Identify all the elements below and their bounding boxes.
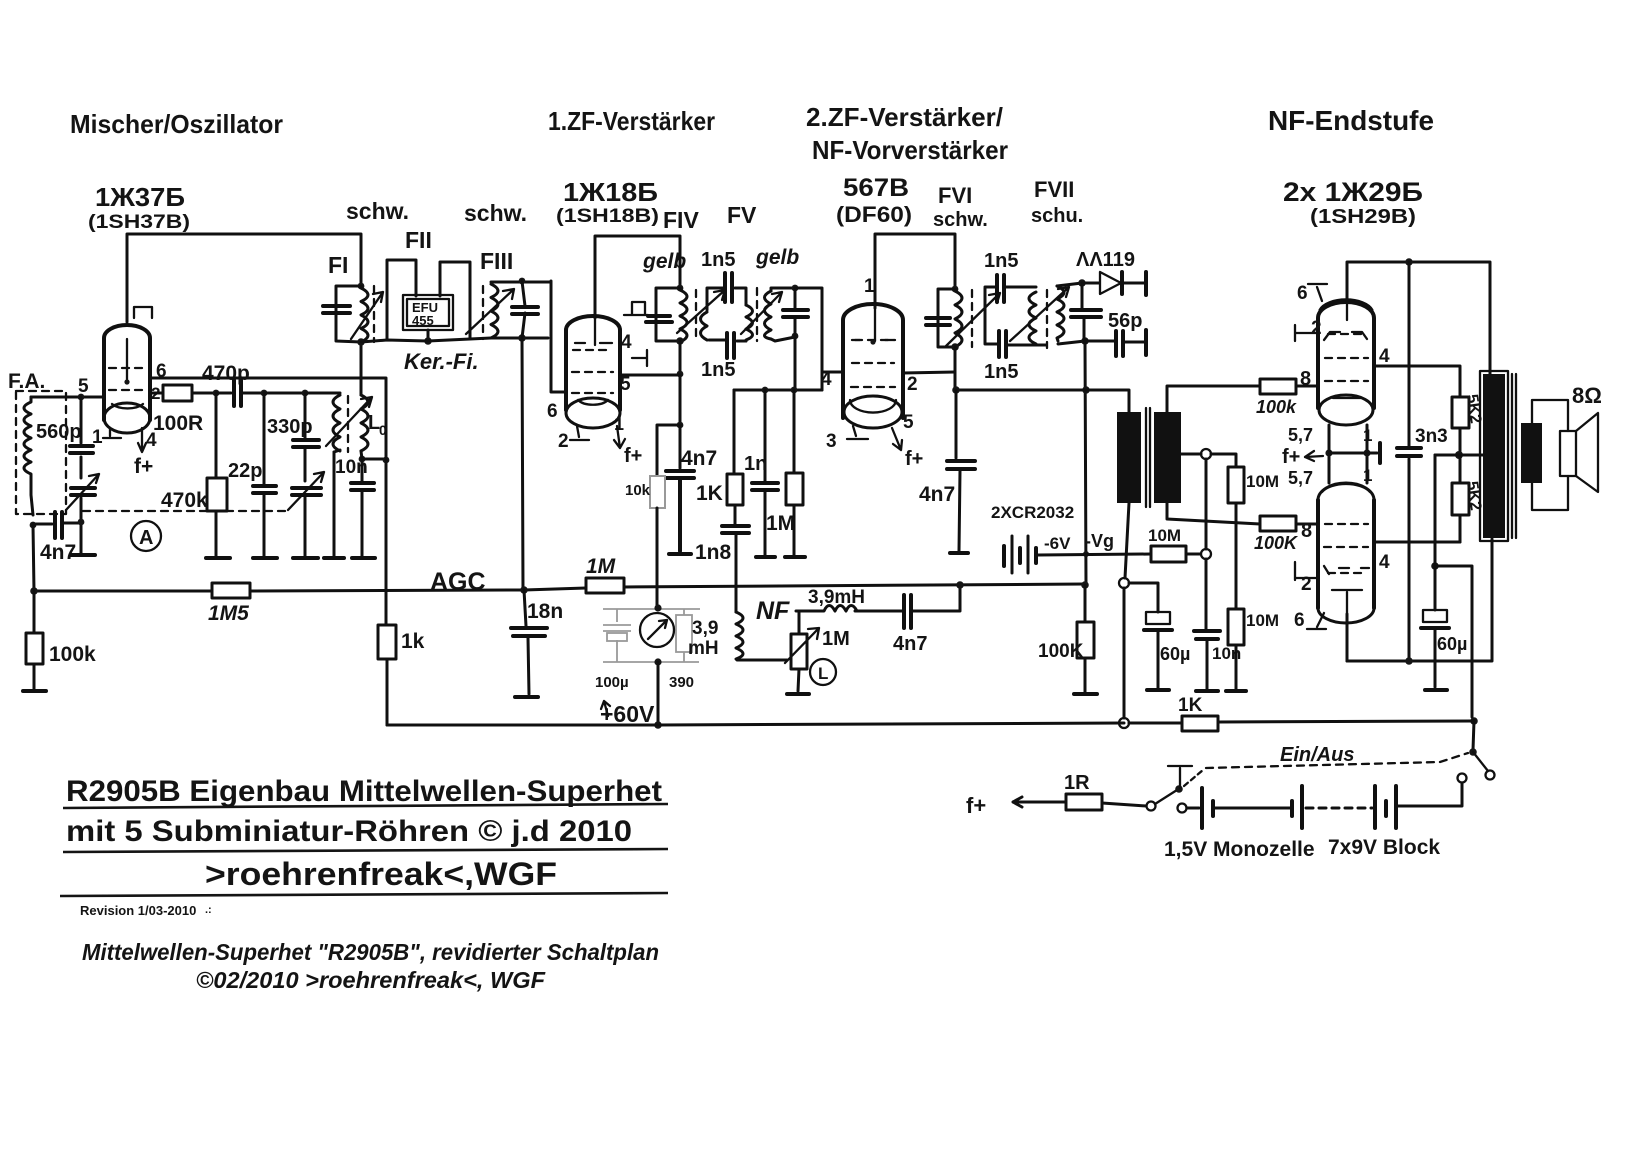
- svg-text:FVII: FVII: [1034, 177, 1074, 202]
- svg-text:1M: 1M: [822, 628, 850, 650]
- top-cap grid symbol V1: [134, 307, 152, 318]
- svg-text:schw.: schw.: [464, 200, 527, 226]
- svg-text:22p: 22p: [228, 460, 262, 482]
- wire centre tap to transformer: [1480, 454, 1483, 457]
- wire V1 pin5 to antenna circuit: [31, 396, 103, 399]
- IF transformer FI tank: [358, 283, 365, 290]
- svg-text:Mischer/Oszillator: Mischer/Oszillator: [70, 109, 283, 139]
- meter circle: [640, 613, 674, 647]
- svg-text:4n7: 4n7: [40, 541, 76, 564]
- svg-text:1n5: 1n5: [701, 249, 735, 271]
- IF transformer FIII tank: [482, 286, 484, 339]
- svg-text:f+: f+: [905, 448, 923, 470]
- capacitor 60u (right): [1431, 562, 1439, 570]
- svg-text:6: 6: [547, 401, 558, 422]
- node 4n7/10k: [677, 422, 684, 429]
- ceramic filter EFU455 box: [403, 295, 453, 330]
- svg-text:3: 3: [826, 431, 837, 452]
- wire FV bottom to grid-return bus: [794, 336, 797, 390]
- svg-text:4n7: 4n7: [893, 633, 927, 655]
- svg-text:1Ж37Б: 1Ж37Б: [95, 182, 185, 212]
- IF transformer FVI primary tank: [952, 286, 959, 293]
- svg-text:5,7: 5,7: [1288, 468, 1313, 488]
- resistor 1M5: [212, 583, 250, 598]
- driver transformer secondary core (black): [1154, 412, 1181, 503]
- pin 4 stub V2: [632, 350, 647, 366]
- battery 7x9V Block: [1290, 801, 1294, 816]
- wire V2 pin5: [620, 374, 680, 377]
- capacitor 4n7 (detector bypass): [955, 390, 958, 458]
- svg-text:2x 1Ж29Б: 2x 1Ж29Б: [1283, 177, 1423, 207]
- resistor 100K (AGC load): [1084, 585, 1087, 692]
- svg-text:2: 2: [558, 431, 569, 452]
- potentiometer 1M volume: [791, 634, 807, 669]
- top-cap grid symbol V2: [632, 302, 645, 314]
- meter symbol A circle: [131, 521, 161, 551]
- oscillator coil feedback winding: [333, 395, 340, 452]
- wire -Vg to transformer centre tap: [1205, 459, 1208, 549]
- resistor 5K2 upper: [1452, 397, 1469, 428]
- svg-text:1.ZF-Verstärker: 1.ZF-Verstärker: [548, 106, 715, 136]
- svg-text:schw.: schw.: [933, 209, 988, 231]
- svg-text:Revision 1/03-2010: Revision 1/03-2010: [80, 903, 196, 918]
- svg-text:60µ: 60µ: [1437, 634, 1467, 654]
- grid return bus y390: [734, 389, 822, 392]
- driver transformer secondary bottom to 100K V5 grid: [1167, 503, 1260, 524]
- svg-text:2XCR2032: 2XCR2032: [991, 503, 1074, 522]
- svg-text:(1SH18B): (1SH18B): [556, 206, 659, 227]
- pin 3 stub V3: [847, 426, 868, 439]
- switch (battery side): [1147, 802, 1156, 811]
- IF transformer FVI secondary tank: [985, 287, 1046, 345]
- svg-text:8Ω: 8Ω: [1572, 383, 1602, 408]
- svg-text:7x9V Block: 7x9V Block: [1328, 836, 1440, 859]
- svg-text:1n5: 1n5: [984, 250, 1018, 272]
- svg-text:10M: 10M: [1246, 472, 1279, 491]
- oscillator coil core dashed: [347, 396, 349, 452]
- resistor 1R: [1030, 801, 1066, 804]
- resistor 100k (AGC to ground): [33, 591, 36, 689]
- capacitor 4n7 (antenna): [33, 523, 81, 524]
- svg-text:560p: 560p: [36, 421, 82, 443]
- svg-text:1K: 1K: [1178, 695, 1203, 716]
- svg-text:(1SH29B): (1SH29B): [1310, 206, 1416, 228]
- svg-text:f+: f+: [134, 455, 153, 478]
- svg-text:6: 6: [1297, 283, 1308, 304]
- svg-text:2: 2: [1311, 318, 1322, 339]
- svg-text:330p: 330p: [267, 416, 313, 438]
- svg-text:FVI: FVI: [938, 183, 972, 208]
- svg-text:18n: 18n: [527, 600, 563, 623]
- ceramic filter FII left loop: [387, 260, 416, 339]
- svg-text:100R: 100R: [153, 412, 203, 435]
- trimmer capacitor (osc tuning): [292, 488, 321, 495]
- svg-text:1,5V Monozelle: 1,5V Monozelle: [1164, 838, 1315, 861]
- wire FIII bottom to AGC: [522, 338, 523, 590]
- svg-text:schu.: schu.: [1031, 205, 1083, 227]
- speaker matching coil (black): [1521, 423, 1542, 483]
- tube V4 1Zh29B envelope: [1318, 300, 1374, 425]
- svg-text:mH: mH: [688, 638, 719, 659]
- svg-text:390: 390: [669, 674, 694, 691]
- node AGC left: [30, 587, 38, 595]
- svg-text:NF-Vorverstärker: NF-Vorverstärker: [812, 135, 1008, 165]
- svg-text:FI: FI: [328, 252, 348, 278]
- pin 2 stub V2: [570, 426, 589, 440]
- svg-text:-6V: -6V: [1044, 534, 1071, 553]
- loudspeaker: [1560, 431, 1576, 476]
- wire V3 pin4 grid: [822, 371, 843, 374]
- svg-text:©02/2010 >roehrenfreak<, WGF: ©02/2010 >roehrenfreak<, WGF: [196, 967, 546, 993]
- capacitor 1n: [764, 390, 767, 555]
- svg-text:FII: FII: [405, 227, 432, 253]
- svg-text:10M: 10M: [1148, 526, 1181, 545]
- anode bus to driver transformer: [954, 390, 1129, 412]
- FV tank cap: [771, 288, 795, 341]
- svg-text:1M: 1M: [586, 555, 616, 578]
- svg-text:10n: 10n: [1212, 644, 1241, 663]
- resistor 10M (bias feed): [1151, 546, 1186, 562]
- svg-text:4n7: 4n7: [919, 483, 955, 506]
- tube V2 1Zh18B envelope: [566, 316, 620, 428]
- svg-text:3,9mH: 3,9mH: [808, 587, 865, 608]
- battery 1,5V Monozelle: [1187, 807, 1199, 810]
- junction circle -Vg: [1201, 549, 1211, 559]
- svg-text:FIII: FIII: [480, 248, 513, 274]
- svg-text:470p: 470p: [202, 362, 250, 385]
- resistor 5K2 lower: [1459, 455, 1462, 483]
- svg-text:1n: 1n: [744, 453, 767, 475]
- svg-text:567B: 567B: [843, 174, 909, 202]
- svg-text:2.ZF-Verstärker/: 2.ZF-Verstärker/: [806, 102, 1003, 132]
- svg-text:FV: FV: [727, 202, 757, 228]
- svg-text:8: 8: [1301, 520, 1312, 542]
- dashed tuning gang link: [83, 510, 289, 512]
- svg-text:R2905B Eigenbau Mittelwellen-S: R2905B Eigenbau Mittelwellen-Superhet: [66, 775, 662, 808]
- svg-text:NF: NF: [756, 597, 790, 625]
- svg-text:100K: 100K: [1254, 533, 1299, 553]
- wire V1 pin6 line to x386 rail: [150, 378, 386, 625]
- antenna coil: [24, 397, 33, 515]
- svg-text:Ker.-Fi.: Ker.-Fi.: [404, 349, 479, 374]
- wire to 10k meter chain: [657, 425, 680, 476]
- wire 60u node to on/off switch: [1435, 566, 1472, 717]
- svg-text:gelb: gelb: [755, 246, 799, 269]
- svg-text:100k: 100k: [49, 643, 96, 666]
- IF transformer FIV secondary / FV link circuit: [707, 288, 746, 310]
- oscillator coil L0: [361, 395, 368, 451]
- resistor 100k (V4 grid): [1260, 379, 1296, 394]
- svg-text:4: 4: [821, 369, 832, 390]
- svg-text:4: 4: [1379, 552, 1390, 573]
- svg-text:60µ: 60µ: [1160, 644, 1190, 664]
- node antenna bottom: [30, 522, 37, 529]
- capacitor 22p: [263, 393, 266, 556]
- wire FIII top to V2 grid pin6: [551, 281, 566, 392]
- resistor 1M (grid leak): [793, 390, 796, 555]
- wire FV top to V3 grid: [795, 288, 822, 390]
- ground bar antenna chain: [71, 553, 95, 557]
- resistor 10M upper: [1228, 467, 1244, 503]
- wire FVII down to AGC end: [1085, 341, 1086, 585]
- svg-text:3n3: 3n3: [1415, 426, 1448, 447]
- wire V1 anode to FI top: [127, 234, 361, 322]
- capacitor 60u (left): [1146, 612, 1170, 624]
- svg-text:4n7: 4n7: [681, 447, 717, 470]
- wire V2 anode to FIV: [595, 236, 680, 318]
- svg-text:6: 6: [1294, 610, 1305, 631]
- tube V1 1Zh37B envelope: [104, 325, 150, 433]
- svg-text:455: 455: [412, 313, 434, 328]
- wire node to AGC: [33, 525, 34, 591]
- svg-text:5: 5: [78, 376, 89, 397]
- svg-text:4: 4: [1379, 346, 1390, 367]
- FII centre tap: [427, 330, 430, 341]
- resistor 1K chain with 1n8: [733, 390, 736, 474]
- tube V3 567B envelope: [843, 304, 903, 428]
- bus FI-FII-FIII: [361, 338, 491, 342]
- svg-text:100K: 100K: [1038, 641, 1084, 662]
- svg-text:5,7: 5,7: [1288, 425, 1313, 445]
- svg-text:1: 1: [614, 414, 624, 434]
- resistor 100R: [150, 392, 216, 395]
- svg-text:1n5: 1n5: [984, 361, 1018, 383]
- svg-text:10n: 10n: [335, 457, 368, 478]
- wire FIV bottom to V2 pin5 node: [679, 341, 682, 425]
- node L0 bottom: [359, 456, 366, 463]
- svg-text:mit 5 Subminiatur-Röhren © j.d: mit 5 Subminiatur-Röhren © j.d 2010: [66, 815, 632, 848]
- wire FI bottom to pin6 line to L0 top: [360, 342, 363, 395]
- detector transformer FVII primary: [1057, 286, 1064, 341]
- resistor 10k (grey): [650, 476, 665, 508]
- svg-text:F.A.: F.A.: [8, 370, 45, 393]
- ceramic filter FII right loop: [440, 262, 470, 338]
- svg-text:10k: 10k: [625, 482, 651, 499]
- transformer FV primary coil: [746, 305, 753, 341]
- svg-text:>roehrenfreak<,WGF: >roehrenfreak<,WGF: [205, 856, 557, 892]
- svg-text:1R: 1R: [1064, 772, 1090, 794]
- svg-text:Mittelwellen-Superhet "R2905B": Mittelwellen-Superhet "R2905B", revidier…: [82, 939, 659, 965]
- speaker wire loop: [1532, 400, 1568, 510]
- svg-text:1: 1: [864, 276, 875, 297]
- capacitor 10n (bias filter): [1206, 559, 1207, 689]
- svg-text:Ein/Aus: Ein/Aus: [1280, 744, 1354, 766]
- IF transformer FIV primary tank: [677, 285, 684, 292]
- tube V5 1Zh29B envelope: [1318, 483, 1374, 623]
- svg-text:1n5: 1n5: [701, 359, 735, 381]
- capacitor 10n (osc): [361, 459, 364, 556]
- svg-text:1k: 1k: [401, 630, 425, 653]
- svg-text:470k: 470k: [161, 489, 208, 512]
- svg-text:.:: .:: [205, 904, 212, 916]
- svg-text:1M: 1M: [766, 512, 795, 535]
- svg-text:3,9: 3,9: [692, 618, 718, 639]
- wire V5 bottom to cathode rail: [1346, 614, 1349, 661]
- svg-text:(DF60): (DF60): [836, 202, 912, 227]
- dashed switch link: [1206, 753, 1468, 768]
- capacitor 330p: [304, 393, 307, 556]
- svg-text:L: L: [818, 664, 828, 683]
- resistor 1K (rail): [1182, 716, 1218, 731]
- driver transformer primary core (black): [1117, 412, 1141, 503]
- svg-text:-Vg: -Vg: [1085, 531, 1114, 551]
- wire 60u node down to +60V rail: [1123, 588, 1126, 718]
- svg-text:10M: 10M: [1246, 611, 1279, 630]
- capacitor 4n7 (V2 anode decoupling): [679, 425, 682, 468]
- svg-text:8: 8: [1300, 368, 1311, 390]
- L circle label: [810, 659, 836, 685]
- capacitor 3n3: [1408, 262, 1411, 661]
- transformer FV secondary coil: [765, 291, 772, 339]
- centre tap node: [1455, 451, 1463, 459]
- svg-text:FIV: FIV: [663, 207, 699, 233]
- svg-text:f+: f+: [1282, 446, 1300, 468]
- wire bias line: [1038, 554, 1151, 555]
- trimmer capacitor (antenna tuning): [71, 488, 95, 495]
- svg-text:NF-Endstufe: NF-Endstufe: [1268, 105, 1434, 136]
- capacitor 18n: [524, 590, 529, 694]
- cathode bottom rail: [1347, 539, 1492, 661]
- svg-text:f+: f+: [966, 793, 986, 818]
- antenna coil dashed box: [16, 391, 66, 514]
- pin 1 filament arrow V2: [614, 426, 625, 448]
- driver transformer secondary top to 100k V4 grid: [1167, 386, 1260, 412]
- svg-text:1M5: 1M5: [208, 602, 249, 625]
- resistor 1M (AGC): [586, 578, 624, 593]
- svg-text:ΛΛ119: ΛΛ119: [1076, 249, 1135, 271]
- svg-text:A: A: [139, 527, 153, 549]
- svg-text:1n8: 1n8: [695, 541, 732, 564]
- svg-text:5: 5: [903, 412, 914, 433]
- node AGC / FIII: [520, 586, 528, 594]
- svg-text:1Ж18Б: 1Ж18Б: [563, 177, 658, 207]
- output transformer core (black): [1480, 371, 1508, 541]
- svg-text:schw.: schw.: [346, 198, 409, 224]
- svg-text:5: 5: [620, 374, 631, 395]
- resistor 10M lower: [1228, 609, 1244, 645]
- svg-text:1K: 1K: [696, 482, 723, 505]
- resistor 470k: [215, 393, 218, 556]
- pin 5 filament arrow V3: [892, 428, 902, 450]
- svg-text:56p: 56p: [1108, 310, 1142, 332]
- capacitor 4n7 (NF coupling): [904, 595, 911, 628]
- wire V3 anode to FVI: [875, 234, 955, 308]
- wire V4 anode to top rail: [1347, 262, 1490, 374]
- svg-text:(1SH37B): (1SH37B): [88, 212, 190, 233]
- svg-text:100µ: 100µ: [595, 674, 629, 691]
- resistor 100K (V5 grid): [1260, 516, 1296, 531]
- meter assembly (grey) 100u / meter / 390: [603, 609, 700, 662]
- svg-text:2: 2: [907, 374, 918, 395]
- wire FVI bottom to V3 pin2 and bus: [954, 347, 957, 390]
- capacitor 470p: [216, 392, 264, 395]
- svg-text:100k: 100k: [1256, 397, 1297, 417]
- svg-text:4: 4: [621, 332, 632, 353]
- node pin2 bus: [213, 390, 220, 397]
- svg-text:f+: f+: [624, 445, 642, 467]
- driver transformer primary bottom to 60u node: [1125, 503, 1129, 578]
- resistor 1k (osc supply): [378, 625, 396, 659]
